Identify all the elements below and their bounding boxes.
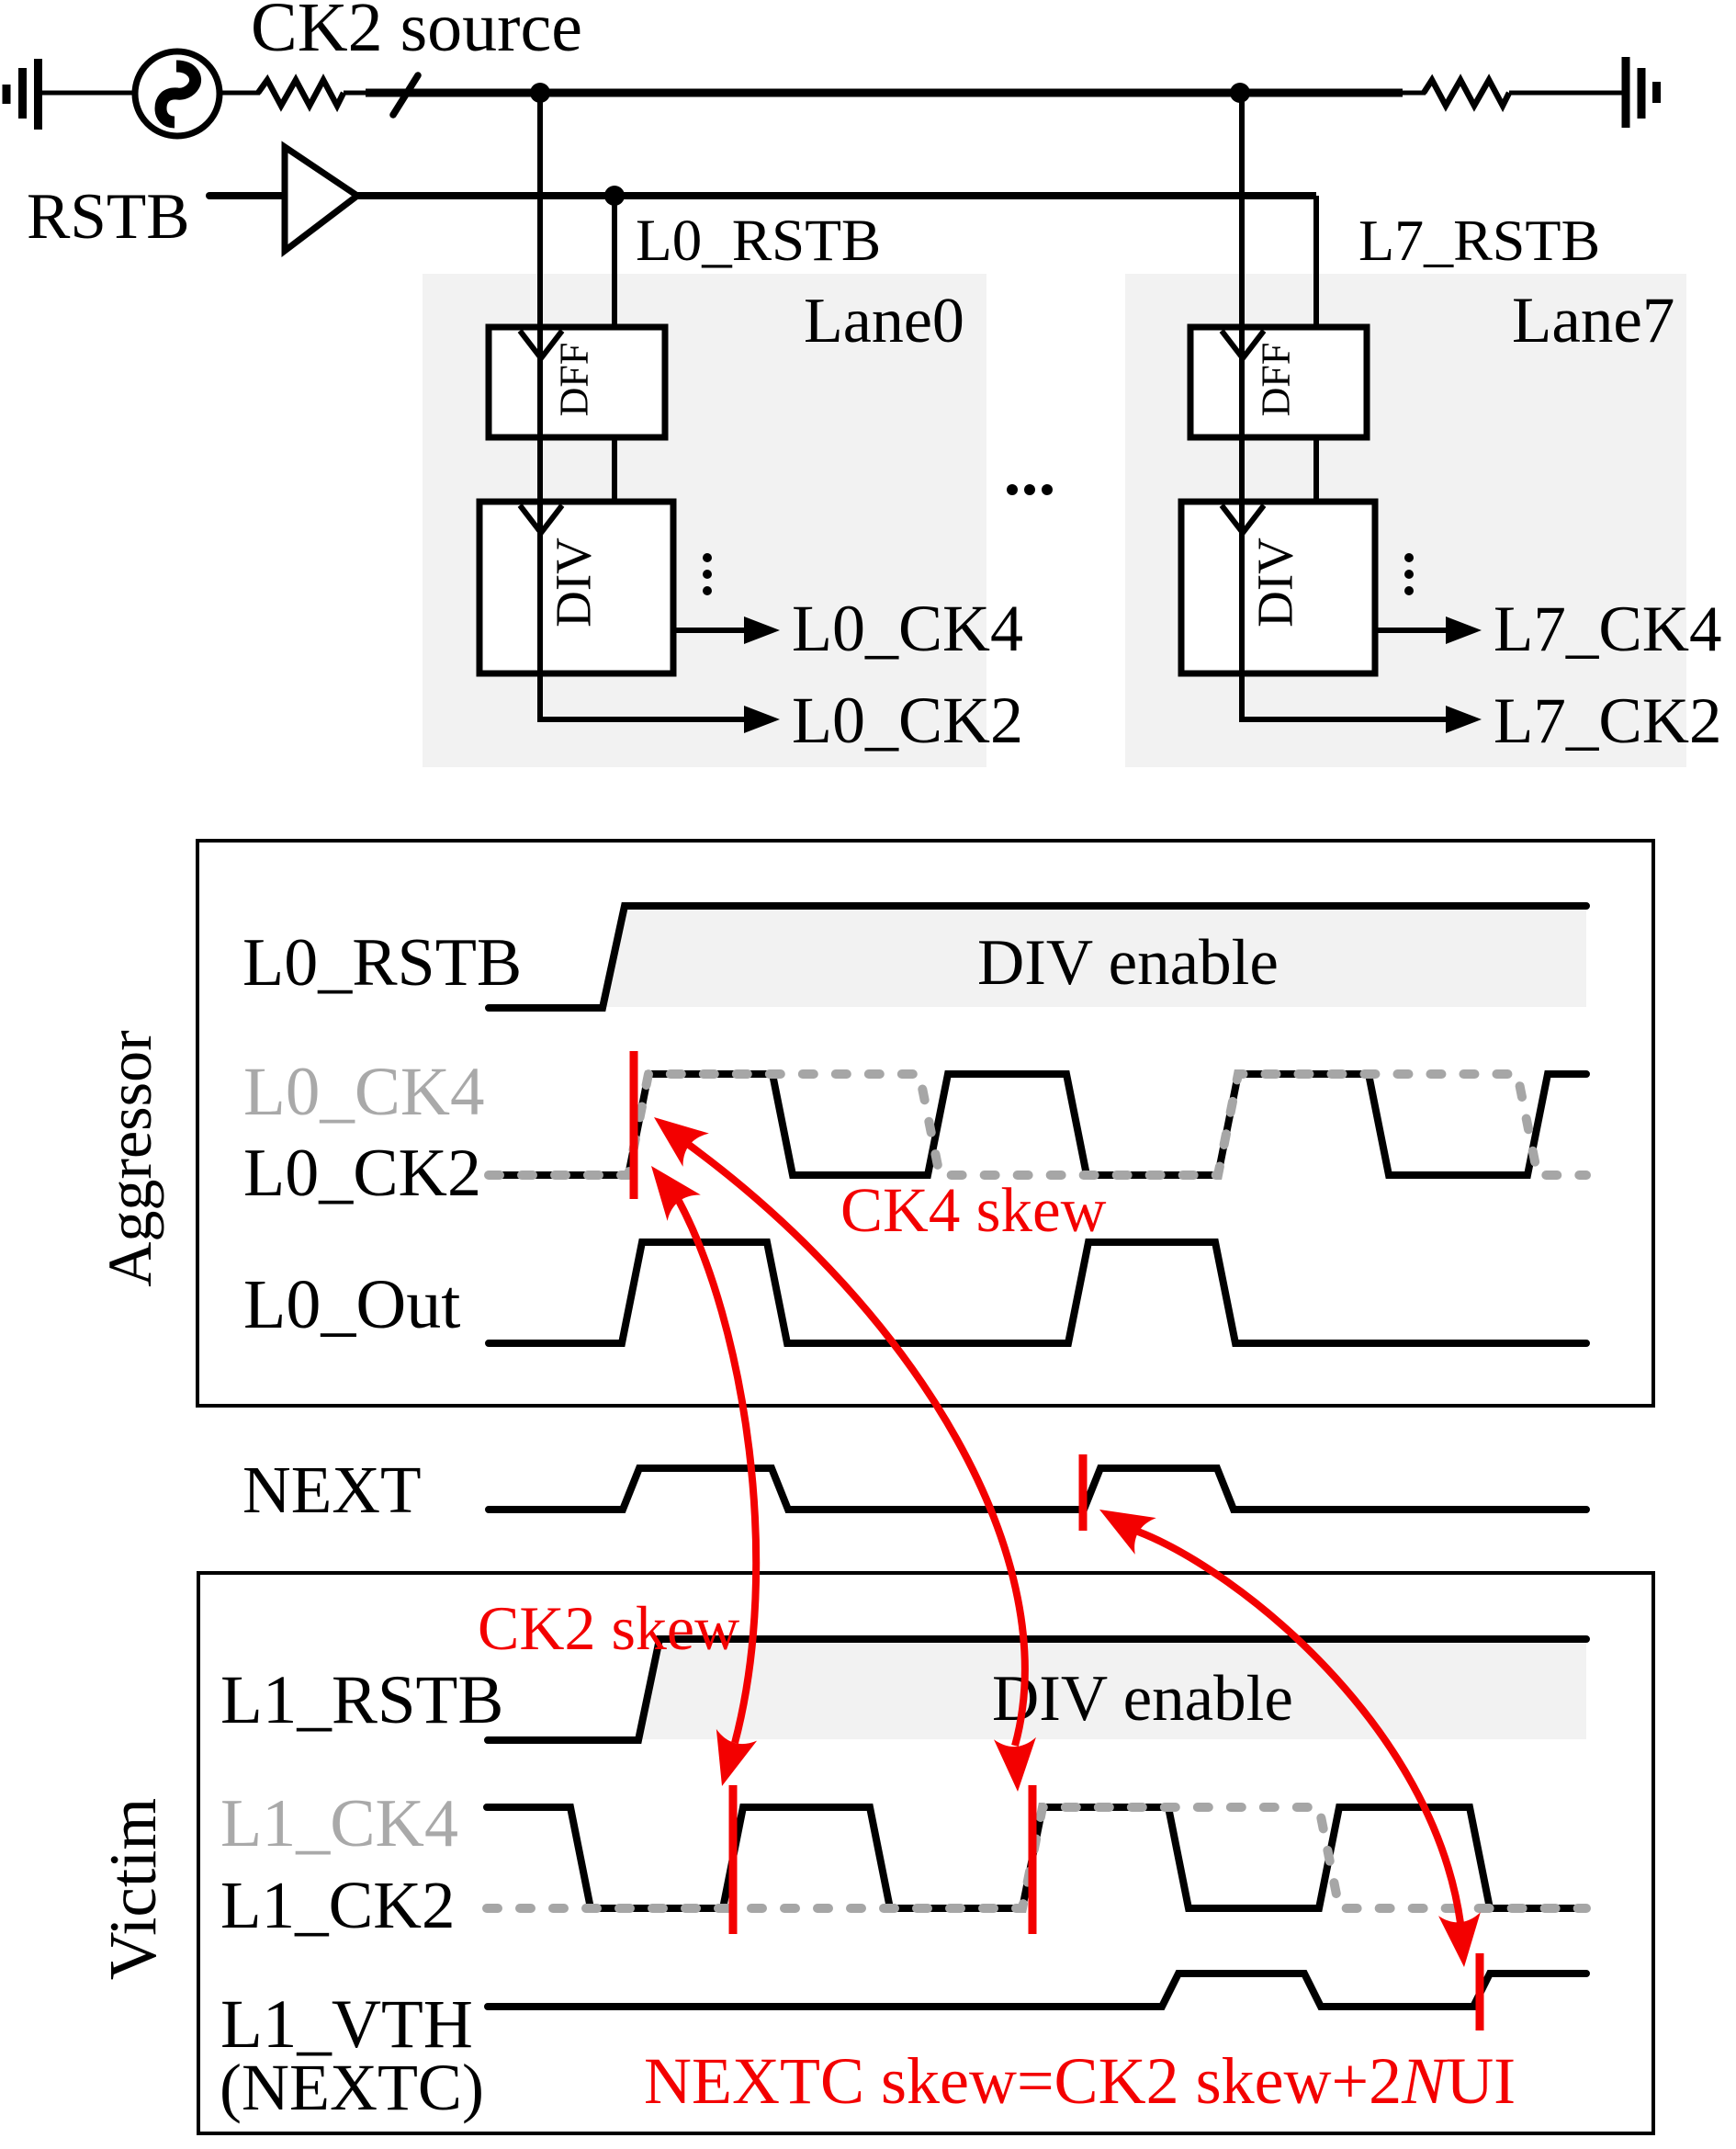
wire L0 dff to div (612, 437, 617, 504)
svg-text:Lane0: Lane0 (804, 286, 964, 356)
waveform NEXT (489, 1468, 1586, 1510)
svg-text:L0_CK4: L0_CK4 (243, 1054, 485, 1130)
svg-text:NEXTC skew=CK2 skew+2NUI: NEXTC skew=CK2 skew+2NUI (644, 2044, 1516, 2118)
arrow L0_CK4 (744, 616, 780, 644)
L7 internal dots (1404, 553, 1414, 595)
svg-text:RSTB: RSTB (27, 181, 190, 253)
arrow L7_CK4 (1446, 616, 1482, 644)
svg-text:L0_Out: L0_Out (243, 1266, 460, 1343)
DIV enable region aggressor (604, 909, 1586, 1007)
aggressor box (197, 841, 1653, 1406)
node L0 clock junction (530, 83, 550, 103)
svg-text:DIV: DIV (546, 537, 602, 628)
flip-flop DFF L7 (1190, 327, 1367, 437)
flip-flop DFF L0 (489, 327, 665, 437)
svg-text:L7_CK4: L7_CK4 (1494, 594, 1722, 665)
arrowhead CK4 skew bottom (994, 1737, 1039, 1793)
svg-text:CK2 skew: CK2 skew (478, 1593, 739, 1663)
svg-text:L0_CK2: L0_CK2 (243, 1136, 481, 1211)
red tick CK rise aggressor (630, 1051, 638, 1199)
divider DIV L0 box (479, 502, 673, 673)
lane7 shaded region (1125, 274, 1686, 767)
svg-text:L1_RSTB: L1_RSTB (220, 1662, 503, 1738)
DFF L0 clock wedge (520, 331, 562, 358)
CK2 bus wire (366, 89, 1403, 97)
node L7 clock junction (1230, 83, 1250, 103)
red arrow CK4 skew curve (689, 1145, 1025, 1746)
buffer U1 (285, 147, 357, 251)
ground GND1 (left) (6, 59, 39, 130)
lane0 shaded region (423, 274, 986, 767)
svg-text:Lane7: Lane7 (1512, 285, 1674, 356)
svg-text:L0_RSTB: L0_RSTB (242, 925, 522, 1001)
wire L7_CK2 output (1242, 717, 1450, 719)
dots between lanes (1007, 484, 1053, 495)
wire L7 rstb vertical (1313, 196, 1319, 327)
waveform L0_Out (489, 1242, 1586, 1343)
svg-text:DIV enable: DIV enable (992, 1663, 1293, 1735)
svg-text:(NEXTC): (NEXTC) (220, 2051, 484, 2124)
wire R1 to bus (344, 91, 367, 96)
arrowhead CK2 skew top (635, 1153, 701, 1221)
svg-text:L7_RSTB: L7_RSTB (1358, 208, 1600, 273)
svg-text:DFF: DFF (552, 343, 597, 417)
wire L0_CK2 output (540, 717, 749, 719)
waveform L0_CK4 dashed (489, 1074, 1586, 1175)
svg-text:Aggressor: Aggressor (95, 1030, 164, 1287)
wire source to R1 (220, 91, 260, 96)
arrowhead CK2 skew bottom (702, 1729, 757, 1792)
resistor R2 (1424, 80, 1509, 106)
svg-text:NEXT: NEXT (242, 1453, 422, 1527)
svg-text:L0_CK2: L0_CK2 (792, 684, 1023, 757)
divider DIV L7 box (1181, 502, 1375, 673)
victim box (198, 1573, 1653, 2133)
svg-text:CK2 source: CK2 source (251, 0, 582, 66)
arrowhead NEXTC skew left (1089, 1491, 1156, 1555)
wire L0_CK4 output (673, 628, 749, 633)
svg-text:L7_CK2: L7_CK2 (1494, 685, 1722, 757)
arrowhead CK4 skew top (641, 1101, 709, 1167)
waveform L1_VTH (488, 1974, 1586, 2007)
wire bus to R2 (1403, 91, 1426, 96)
resistor R1 (258, 80, 344, 106)
arrow L0_CK2 (744, 706, 780, 733)
red tick NEXT (1079, 1454, 1088, 1531)
node L0 rstb junction (604, 186, 625, 206)
DIV L7 clock wedge (1222, 505, 1264, 533)
DIV L0 clock wedge (520, 505, 562, 533)
svg-text:L1_CK4: L1_CK4 (220, 1786, 458, 1861)
svg-text:DIV enable: DIV enable (977, 927, 1279, 999)
svg-text:L0_RSTB: L0_RSTB (636, 208, 881, 274)
svg-text:L0_CK4: L0_CK4 (792, 592, 1023, 665)
arrow L7_CK2 (1446, 706, 1482, 733)
svg-text:CK4 skew: CK4 skew (840, 1175, 1107, 1245)
waveform L1_CK2 (487, 1807, 1586, 1908)
wire gnd1 to source (42, 91, 135, 96)
red tick L1_CK2 rise1 (729, 1785, 738, 1934)
AC source V1 (135, 51, 220, 136)
RSTB wire (357, 192, 1316, 199)
DIV enable region victim (640, 1642, 1586, 1739)
svg-text:L1_CK2: L1_CK2 (220, 1868, 456, 1942)
red arrow CK2 skew curve (679, 1201, 756, 1743)
svg-text:Victim: Victim (96, 1798, 170, 1980)
wire L7 ck2 vertical (1239, 93, 1245, 719)
wire L7 dff to div (1313, 437, 1319, 504)
L0 internal dots (703, 553, 712, 595)
waveform L1_RSTB (488, 1639, 1586, 1740)
svg-text:DFF: DFF (1254, 343, 1299, 417)
red arrow NEXTC skew curve (1138, 1532, 1460, 1923)
wire L0 ck2 vertical (537, 93, 543, 719)
DFF L7 clock wedge (1222, 331, 1264, 358)
wire RSTB to buffer (209, 192, 287, 199)
bus slash mark (393, 75, 418, 115)
waveform L0_CK2 (489, 1074, 1586, 1175)
red tick L1_CK4 rise (1029, 1785, 1037, 1934)
wire R2 to gnd2 (1509, 91, 1624, 96)
waveform L1_CK4 dashed (487, 1807, 1586, 1908)
wire L7_CK4 output (1375, 628, 1450, 633)
arrowhead NEXTC skew right (1438, 1912, 1485, 1969)
waveform L0_RSTB (489, 906, 1586, 1008)
wire L0 rstb vertical (612, 196, 617, 327)
red tick L1_VTH rise (1476, 1953, 1484, 2030)
ground GND2 (right) (1626, 57, 1657, 128)
svg-text:DIV: DIV (1247, 537, 1303, 628)
